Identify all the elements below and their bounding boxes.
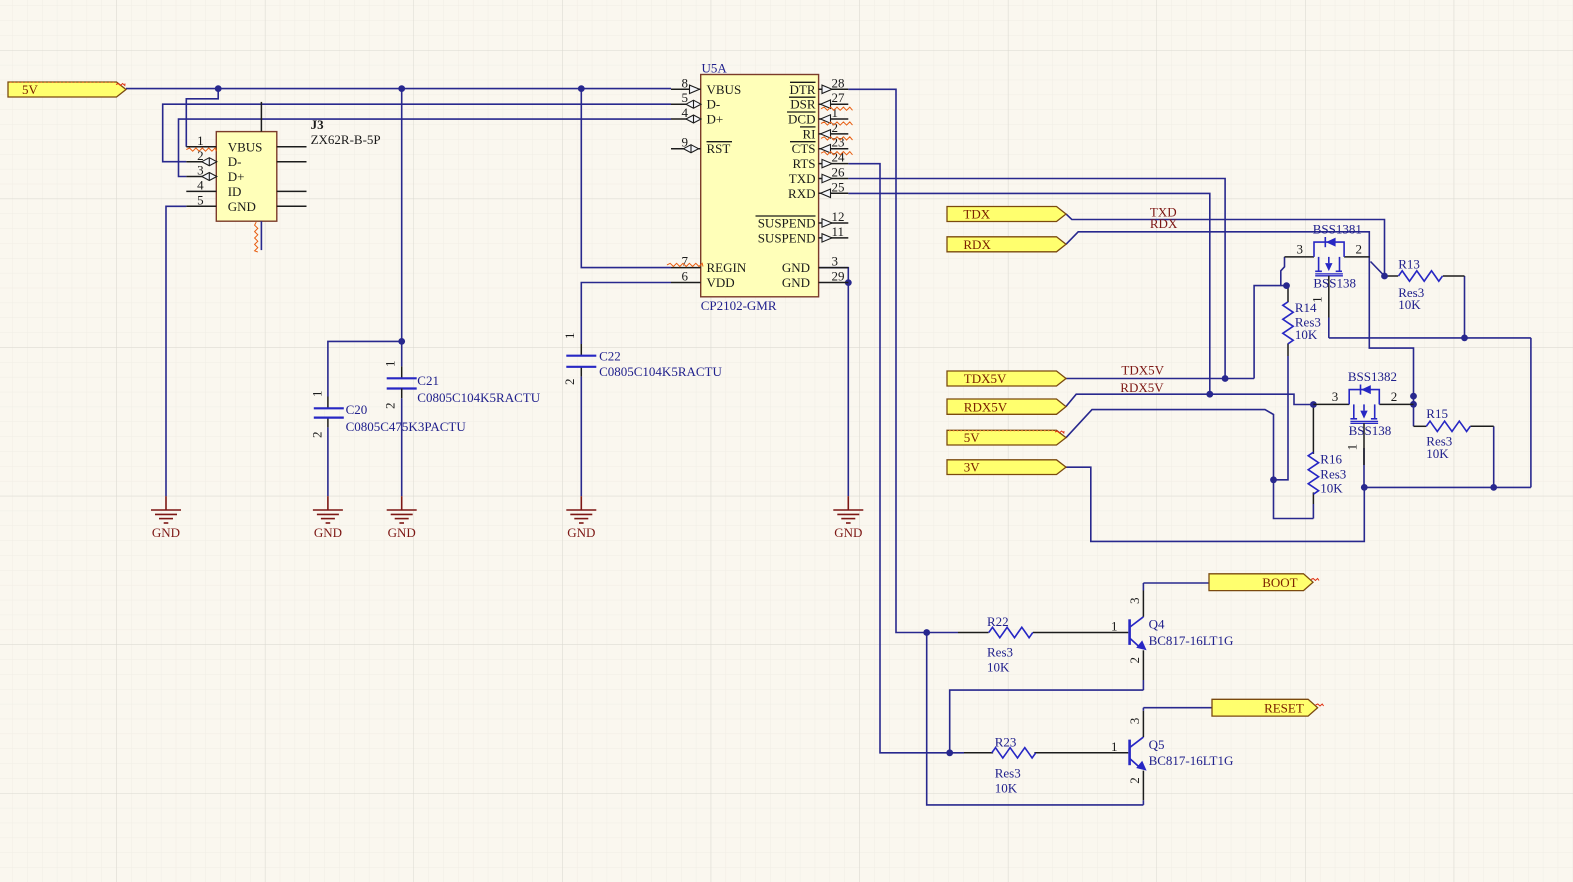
svg-text:D+: D+ (228, 169, 245, 184)
J3 pin 4 ID (186, 190, 216, 192)
wire 5V bus from port to U5A VBUS pin 8 (126, 88, 671, 90)
svg-text:5: 5 (197, 193, 204, 208)
svg-text:DCD: DCD (788, 112, 815, 127)
wire RTS pin 24 down to R23 (848, 164, 964, 753)
svg-text:3: 3 (1332, 389, 1339, 404)
svg-text:10K: 10K (1320, 480, 1343, 495)
wire R13 right lead down (1464, 276, 1466, 338)
port RDX5V (947, 399, 1066, 414)
no-ERC marker J3 bottom (255, 222, 258, 252)
svg-text:2: 2 (1391, 389, 1398, 404)
wire BSS1381 pin3 down to R14 junction (1281, 257, 1285, 286)
svg-text:R23: R23 (995, 735, 1017, 750)
U5A pin 4 D+ (671, 118, 701, 120)
svg-text:10K: 10K (1398, 297, 1421, 312)
svg-text:BSS1381: BSS1381 (1313, 221, 1362, 236)
svg-text:R22: R22 (987, 614, 1009, 629)
svg-text:2: 2 (1127, 657, 1142, 664)
svg-text:8: 8 (682, 75, 689, 90)
svg-text:ZX62R-B-5P: ZX62R-B-5P (311, 132, 381, 147)
ground GND U5A (833, 496, 863, 523)
svg-text:1: 1 (1345, 444, 1360, 451)
svg-text:1: 1 (383, 361, 398, 368)
wire 5V to C20/C21 (401, 89, 403, 367)
wire C21 junction to C20 (328, 341, 402, 396)
svg-text:RST: RST (707, 141, 731, 156)
svg-text:C0805C475K3PACTU: C0805C475K3PACTU (346, 419, 467, 434)
power port 5V mid (947, 430, 1066, 445)
svg-text:BC817-16LT1G: BC817-16LT1G (1149, 753, 1234, 768)
IC U5A CP2102-GMR body (701, 75, 819, 297)
J3 pin 2 D- (186, 161, 216, 163)
wire TDX port to BSS1381 pin 2 / R13 (TXD net) (1066, 214, 1385, 276)
svg-text:RXD: RXD (788, 186, 815, 201)
U5A pin 11 SUSPEND (819, 237, 849, 239)
svg-text:3: 3 (1297, 241, 1304, 256)
wire C22 pin 2 to ground (580, 367, 582, 377)
svg-text:27: 27 (832, 90, 846, 105)
U5A pin 28 DTR (819, 88, 849, 90)
transistor Q5 BC817-16LT1G (1128, 740, 1131, 766)
svg-text:25: 25 (832, 179, 845, 194)
transistor Q4 BC817-16LT1G (1128, 619, 1131, 645)
svg-text:GND: GND (152, 525, 180, 540)
svg-text:2: 2 (383, 403, 398, 410)
svg-text:Res3: Res3 (987, 644, 1013, 659)
resistor R23 Res3 10K (992, 748, 1036, 758)
J3 shield pins right side (277, 146, 307, 148)
svg-text:C21: C21 (417, 373, 439, 388)
svg-text:Q5: Q5 (1149, 737, 1165, 752)
U5A pin 25 RXD (819, 192, 849, 194)
J3 shield pin bottom stub (260, 221, 262, 250)
svg-text:28: 28 (832, 75, 845, 90)
svg-text:R13: R13 (1398, 257, 1420, 272)
power port 5V left (8, 82, 126, 97)
wire RDX5V port to BSS1382 pin 3 (1066, 394, 1313, 406)
svg-text:6: 6 (682, 269, 689, 284)
U5A pin 6 VDD (671, 282, 701, 284)
U5A pin 7 REGIN (671, 267, 701, 269)
svg-text:DTR: DTR (790, 82, 816, 97)
resistor R13 Res3 10K (1399, 271, 1443, 281)
svg-text:D-: D- (707, 97, 721, 112)
wire TDX5V port to R14 top (1066, 378, 1254, 380)
svg-text:3V: 3V (964, 460, 981, 475)
U5A pin 2 RI (819, 133, 849, 135)
svg-text:12: 12 (832, 209, 845, 224)
wire DTR pin 28 down to R22 (848, 89, 958, 632)
port BOOT (1209, 574, 1313, 591)
svg-text:C20: C20 (346, 402, 368, 417)
svg-text:1: 1 (562, 333, 577, 340)
junction dots (215, 85, 222, 92)
svg-text:D-: D- (228, 154, 242, 169)
U5A pin 12 SUSPEND (819, 222, 849, 224)
wire R15 leads (1414, 425, 1427, 427)
svg-text:2: 2 (562, 379, 577, 386)
svg-text:3: 3 (197, 163, 204, 178)
svg-text:GND: GND (388, 525, 416, 540)
svg-text:RDX5V: RDX5V (964, 399, 1008, 414)
svg-text:R16: R16 (1320, 452, 1342, 467)
ground GND J3 (151, 496, 181, 523)
ground GND C22 (566, 496, 596, 523)
svg-text:BSS138: BSS138 (1313, 276, 1356, 291)
U5A pin 9 RST (671, 148, 701, 150)
wire R22 lead to Q4 base (958, 632, 989, 634)
svg-text:GND: GND (228, 199, 256, 214)
svg-text:1: 1 (1111, 739, 1118, 754)
svg-text:10K: 10K (987, 660, 1010, 675)
U5A pin 24 RTS (819, 163, 849, 165)
no-ERC markers right pins (821, 107, 853, 110)
wire Q4 emitter to Q5 base node (950, 690, 1144, 753)
svg-text:BSS1382: BSS1382 (1348, 369, 1397, 384)
port 3V (947, 460, 1066, 475)
wire U5A D- to J3 D- (163, 104, 671, 162)
U5A pin 27 DSR (819, 103, 849, 105)
svg-text:SUSPEND: SUSPEND (758, 230, 816, 245)
J3 pin 1 VBUS (186, 146, 216, 148)
connector J3 ZX62R-B-5P body (216, 132, 276, 222)
svg-text:RESET: RESET (1264, 701, 1304, 716)
no-ERC marker J3 pin 1 (186, 148, 216, 151)
svg-text:4: 4 (197, 178, 204, 193)
wire Q4 collector to BOOT (1143, 582, 1209, 584)
svg-text:2: 2 (310, 432, 325, 439)
wire 3V port to gate net (1066, 467, 1364, 541)
svg-text:5: 5 (682, 90, 689, 105)
wire BSS1382 gate down to 3V net (1363, 448, 1365, 487)
svg-text:U5A: U5A (702, 61, 728, 76)
svg-text:1: 1 (197, 133, 204, 148)
transistor BSS1381 BSS138 MOSFET (1285, 256, 1315, 258)
U5A pin 5 D- (671, 103, 701, 105)
svg-text:GND: GND (567, 525, 595, 540)
svg-text:SUSPEND: SUSPEND (758, 216, 816, 231)
svg-text:3: 3 (1127, 598, 1142, 605)
wire R16 top lead (1312, 405, 1314, 454)
wire gate net horizontal upper (1329, 337, 1531, 339)
J3 pin 5 GND (186, 205, 216, 207)
wire R23 lead to Q5 base (964, 752, 993, 754)
svg-text:J3: J3 (311, 117, 325, 132)
port RESET (1212, 699, 1318, 716)
svg-text:RTS: RTS (792, 156, 815, 171)
wire C20 pin 2 to ground (327, 418, 329, 428)
port TDX5V (947, 371, 1066, 386)
wire gate net horizontal lower (1364, 486, 1531, 488)
svg-text:BSS138: BSS138 (1349, 423, 1392, 438)
wire R14 bottom to 5V junction (1287, 344, 1289, 357)
svg-text:1: 1 (1309, 296, 1324, 303)
svg-text:10K: 10K (1295, 327, 1318, 342)
svg-text:GND: GND (782, 275, 810, 290)
wire 5V port to R14/R16 bottoms (1066, 410, 1313, 519)
svg-text:Q4: Q4 (1149, 617, 1165, 632)
J3 shield pin top (260, 102, 262, 132)
resistor R15 Res3 10K (1426, 421, 1470, 431)
wire Q5 collector to RESET (1143, 707, 1212, 709)
svg-text:TDX5V: TDX5V (964, 371, 1007, 386)
wire VDD to C22 (581, 283, 671, 345)
U5A pin 3 GND (819, 267, 849, 269)
svg-text:Res3: Res3 (1320, 467, 1346, 482)
svg-text:BC817-16LT1G: BC817-16LT1G (1149, 633, 1234, 648)
svg-text:RDX5V: RDX5V (1120, 380, 1164, 395)
svg-text:1: 1 (310, 391, 325, 398)
svg-text:BOOT: BOOT (1262, 575, 1297, 590)
svg-text:RDX: RDX (963, 237, 991, 252)
svg-text:VBUS: VBUS (228, 139, 263, 154)
svg-text:CP2102-GMR: CP2102-GMR (701, 298, 777, 313)
wire BSS1381 gate down (1328, 318, 1330, 338)
svg-text:DSR: DSR (790, 97, 816, 112)
svg-text:5V: 5V (22, 82, 39, 97)
ground GND C20 (313, 496, 343, 523)
capacitor C20 (314, 408, 344, 417)
svg-text:TXD: TXD (789, 171, 816, 186)
wire Q5 emitter return (927, 633, 1144, 805)
resistor R16 Res3 10K (1308, 452, 1318, 494)
svg-text:Res3: Res3 (995, 765, 1021, 780)
svg-text:29: 29 (832, 269, 845, 284)
svg-text:RI: RI (803, 126, 816, 141)
ground GND C21 (387, 496, 417, 523)
svg-text:REGIN: REGIN (707, 260, 747, 275)
no-ERC marker pin 7 (667, 263, 703, 266)
wire R13 to TXD junction lead (1385, 275, 1399, 277)
svg-text:10K: 10K (995, 781, 1018, 796)
svg-text:RDX: RDX (1150, 216, 1178, 231)
svg-text:VDD: VDD (707, 275, 735, 290)
svg-text:GND: GND (834, 525, 862, 540)
svg-text:5V: 5V (964, 430, 981, 445)
wire RXD pin 25 to RDX5V net (848, 193, 1210, 394)
svg-text:CTS: CTS (792, 141, 816, 156)
wire RDX port to BSS1382 pin 2 (RDX net) (1066, 232, 1414, 426)
resistor R14 Res3 10K (1283, 302, 1293, 344)
svg-text:TDX5V: TDX5V (1121, 363, 1164, 378)
port RDX (947, 237, 1066, 252)
wire J3 GND pin 5 to ground (166, 206, 186, 496)
wire TXD pin 26 to TDX5V net (848, 179, 1225, 379)
transistor BSS1382 BSS138 MOSFET (1313, 403, 1349, 405)
U5A pin 26 TXD (819, 178, 849, 180)
svg-text:VBUS: VBUS (707, 82, 742, 97)
wire branch to J3 pin 1 (186, 89, 218, 147)
U5A pin 29 GND (819, 282, 849, 284)
resistor R22 Res3 10K (989, 627, 1033, 637)
svg-text:C0805C104K5RACTU: C0805C104K5RACTU (599, 364, 722, 379)
svg-text:GND: GND (314, 525, 342, 540)
svg-text:2: 2 (1356, 241, 1363, 256)
U5A pin 1 DCD (819, 118, 849, 120)
svg-text:R15: R15 (1426, 406, 1448, 421)
svg-text:1: 1 (1111, 619, 1118, 634)
wire BSS1381 pin2 diagonal to R13 junction (1371, 262, 1385, 277)
svg-text:26: 26 (832, 165, 846, 180)
svg-text:C22: C22 (599, 348, 621, 363)
svg-text:10K: 10K (1426, 446, 1449, 461)
U5A pin 8 VBUS (671, 88, 701, 90)
svg-text:ID: ID (228, 184, 242, 199)
svg-text:GND: GND (782, 260, 810, 275)
svg-text:3: 3 (832, 254, 839, 269)
svg-text:TDX: TDX (963, 207, 990, 222)
svg-text:3: 3 (1127, 718, 1142, 725)
wire R16 bottom loop (1312, 492, 1314, 504)
svg-text:2: 2 (1127, 777, 1142, 784)
wire gate net right riser (1530, 338, 1532, 488)
wire R14 top lead (1287, 286, 1289, 303)
wire 5V down to REGIN (581, 89, 671, 268)
svg-text:D+: D+ (707, 112, 724, 127)
wire R15 right lead down (1493, 426, 1495, 487)
wire U5A GND pins to ground (819, 268, 849, 497)
svg-text:C0805C104K5RACTU: C0805C104K5RACTU (417, 390, 540, 405)
wire U5A D+ to J3 D+ (179, 119, 672, 176)
svg-text:11: 11 (832, 224, 845, 239)
svg-text:7: 7 (682, 254, 689, 269)
J3 pin 3 D+ (186, 176, 216, 178)
U5A pin 23 CTS (819, 148, 849, 150)
port TDX (947, 207, 1066, 222)
capacitor C21 (387, 378, 417, 388)
capacitor C22 (566, 356, 596, 367)
